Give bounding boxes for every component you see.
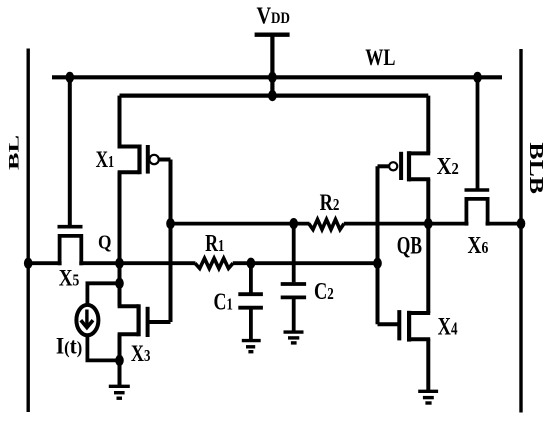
node WL-VDD junction bbox=[268, 72, 277, 83]
svg-text:Q: Q bbox=[98, 232, 111, 254]
FIT:R2 bbox=[320, 189, 340, 216]
pass transistor X6 NMOS symbol bbox=[465, 190, 490, 226]
transistor X1 PMOS symbol bbox=[118, 145, 171, 175]
wire BLB bit line bar vertical bbox=[519, 49, 522, 413]
transistor X3 NMOS symbol bbox=[118, 263, 171, 360]
resistor R1 zigzag bbox=[195, 258, 233, 268]
ground under C1 bbox=[242, 341, 261, 352]
node Q bbox=[115, 258, 124, 269]
node C1 tap on Q rail bbox=[247, 258, 256, 269]
FIT:BL bbox=[6, 135, 22, 170]
wire X6 to BLB bbox=[486, 222, 521, 226]
wire X2-X4 gate vertical bbox=[376, 166, 380, 324]
wire Q rail R1 to gate junction bbox=[233, 261, 378, 265]
FIT:X6 bbox=[468, 231, 489, 259]
wire X5 gate stem bbox=[68, 77, 72, 226]
FIT:C1 bbox=[214, 288, 233, 315]
ground under X3 bbox=[109, 360, 130, 398]
FIT:WL bbox=[365, 46, 395, 70]
wire X6 gate stem bbox=[476, 77, 480, 190]
power VDD symbol bbox=[255, 35, 290, 96]
wire WL word line horizontal bbox=[52, 75, 502, 79]
transistor X4 NMOS symbol bbox=[378, 310, 431, 391]
wire X1 drain to Q node bbox=[118, 172, 122, 263]
wire I(t) bottom branch bbox=[87, 335, 119, 360]
node BLB junction bbox=[517, 218, 526, 229]
wire Q rail left from BL bbox=[28, 261, 61, 265]
FIT:X2 bbox=[437, 153, 459, 180]
wire VDD source rail bbox=[120, 93, 429, 97]
resistor R2 zigzag bbox=[309, 219, 344, 229]
node I(t) bottom junction bbox=[115, 355, 124, 366]
FIT:C2 bbox=[314, 278, 334, 305]
node QB bbox=[424, 218, 433, 229]
FIT:X3 bbox=[131, 340, 151, 367]
FIT:BLB bbox=[526, 142, 549, 194]
capacitor C1 bbox=[238, 263, 263, 340]
wire I(t) top branch bbox=[87, 283, 119, 305]
ground under X4 bbox=[418, 391, 438, 403]
wire C2 tap from QB rail bbox=[292, 224, 296, 283]
FIT:VDD bbox=[256, 2, 289, 29]
wire Q rail to R1 bbox=[79, 261, 195, 265]
node WL-X6 gate junction bbox=[473, 72, 482, 83]
wire X2 source drop bbox=[426, 96, 430, 154]
current source I(t) circle and arrow bbox=[76, 305, 98, 335]
FIT:X5 bbox=[59, 265, 80, 291]
node VDD rail junction bbox=[268, 90, 277, 101]
wire QB vertical X2 drain to X4 drain bbox=[426, 179, 430, 313]
node BL junction bbox=[24, 258, 33, 269]
pass transistor X5 NMOS symbol bbox=[58, 227, 83, 266]
node X1-X3 gate on QB rail bbox=[166, 218, 175, 229]
FIT:R1 bbox=[205, 229, 224, 256]
svg-text:BL: BL bbox=[6, 135, 22, 170]
capacitor C2 bbox=[281, 284, 306, 332]
svg-text:WL: WL bbox=[365, 46, 395, 70]
FIT:It bbox=[56, 333, 82, 359]
transistor X2 PMOS symbol bbox=[378, 151, 431, 181]
FIT:QB bbox=[397, 231, 422, 259]
wire QB rail left segment bbox=[171, 222, 310, 226]
wire X1-X3 gate vertical bbox=[169, 160, 173, 323]
ground under C2 bbox=[284, 332, 304, 343]
wire X1 source drop bbox=[118, 96, 122, 149]
node I(t) top junction bbox=[115, 278, 124, 289]
FIT:Q bbox=[98, 232, 111, 254]
node C2 tap on QB rail bbox=[289, 218, 298, 229]
node WL-X5 gate junction bbox=[66, 72, 75, 83]
wire QB rail right segment to X6 bbox=[344, 222, 469, 226]
svg-text:QB: QB bbox=[397, 231, 422, 259]
node X2-X4 gate on Q rail bbox=[373, 258, 382, 269]
FIT:X4 bbox=[438, 312, 458, 340]
svg-text:BLB: BLB bbox=[526, 142, 549, 194]
FIT:X1 bbox=[96, 147, 115, 172]
wire BL bit line vertical bbox=[27, 49, 30, 413]
